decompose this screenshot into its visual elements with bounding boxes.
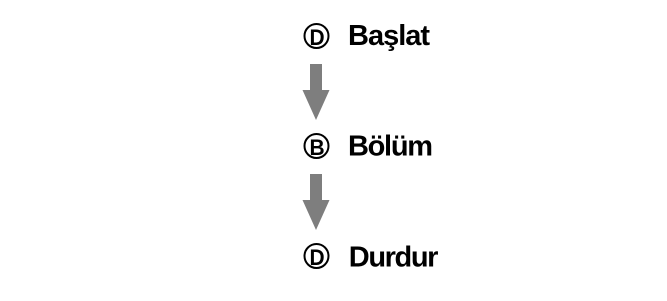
svg-text:D: D bbox=[309, 244, 324, 270]
node Başlat: circled D symbol bbox=[305, 24, 329, 48]
node Bölüm: circled B symbol bbox=[305, 134, 329, 158]
svg-text:Bölüm: Bölüm bbox=[348, 131, 432, 163]
node Durdur: circled D symbol bbox=[305, 244, 329, 268]
svg-text:Başlat: Başlat bbox=[348, 20, 430, 52]
arrow from Başlat to Bölüm bbox=[303, 64, 330, 120]
svg-text:D: D bbox=[309, 24, 324, 50]
arrow from Bölüm to Durdur bbox=[303, 174, 330, 230]
svg-text:B: B bbox=[309, 134, 324, 160]
svg-text:Durdur: Durdur bbox=[349, 241, 438, 273]
